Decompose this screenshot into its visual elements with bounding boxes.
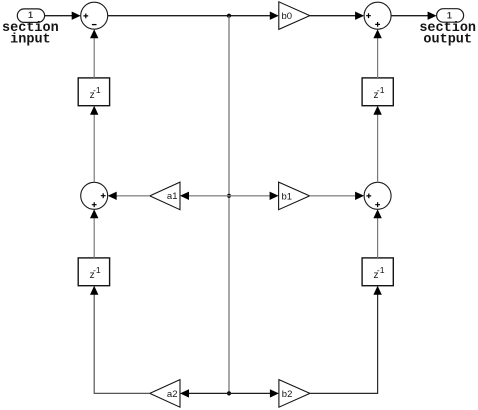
sum S4 (top-right) <box>364 2 391 29</box>
center vertical wire <box>228 16 230 394</box>
arrowhead into S4 <box>355 12 364 20</box>
arrowhead into S2 <box>108 192 117 200</box>
wire a1 to S2 <box>116 195 150 197</box>
arrowhead into S3 <box>355 192 364 200</box>
wire b2 to right column corner and up to lower-right delay <box>310 294 378 394</box>
delay label lower-left <box>90 265 101 281</box>
svg-text:input: input <box>10 32 51 47</box>
svg-text:a1: a1 <box>167 191 178 202</box>
wire a2 to left column corner and up to lower-left delay <box>94 294 150 394</box>
wire upper-right delay to S4 <box>377 38 379 78</box>
arrowhead into output oval <box>428 12 437 20</box>
svg-text:1: 1 <box>447 10 452 20</box>
arrowhead into S2 bottom <box>90 209 98 218</box>
S1 minus sign (bottom input) <box>92 24 97 26</box>
junction node dot (mid center) <box>227 194 231 198</box>
arrowhead into S1 bottom <box>90 29 98 38</box>
gain b1 triangle <box>279 182 310 210</box>
arrowhead into upper-right delay <box>373 106 381 115</box>
arrowhead into lower-left delay <box>90 286 98 295</box>
junction node dot (bottom center) <box>227 391 231 395</box>
svg-text:output: output <box>423 32 472 47</box>
svg-text:b0: b0 <box>282 11 293 22</box>
svg-text:b1: b1 <box>282 191 293 202</box>
wire center to a1 <box>189 195 230 197</box>
output port oval (1) <box>437 9 464 23</box>
S4 plus sign (left input) <box>366 13 371 18</box>
gain a1 triangle <box>150 182 180 210</box>
S3 plus sign (left input) <box>366 194 371 199</box>
wire S2 to upper-left delay <box>93 114 95 182</box>
delay block z^-1 lower-left <box>78 258 109 286</box>
svg-text:-1: -1 <box>93 265 101 275</box>
wire S3 to upper-right delay <box>377 114 379 182</box>
wire b0 to S4 <box>310 15 357 17</box>
S2 plus sign (bottom input) <box>92 202 97 207</box>
sum S2 (mid-left) <box>81 182 108 209</box>
delay block z^-1 upper-right <box>362 78 393 106</box>
gain b2 triangle <box>279 380 310 408</box>
input port oval (1) <box>17 9 44 23</box>
junction node dot (top center) <box>227 14 231 18</box>
wire lower-left delay to S2 <box>93 218 95 258</box>
arrowhead into S3 bottom <box>373 209 381 218</box>
arrowhead into S4 bottom <box>373 29 381 38</box>
wire upper-left delay to S1 <box>93 38 95 78</box>
wire center to b1 <box>229 195 271 197</box>
delay label upper-left <box>90 85 101 101</box>
gain b0 triangle <box>279 2 310 30</box>
S4 plus sign (bottom input) <box>375 22 380 27</box>
arrowhead into lower-right delay <box>373 286 381 295</box>
S2 plus sign (right input) <box>101 193 106 198</box>
wire S4 to output oval <box>391 15 429 17</box>
delay block z^-1 lower-right <box>362 258 393 286</box>
arrowhead into S1 <box>72 12 81 20</box>
arrowhead into b0 <box>270 12 279 20</box>
wire center to a2 <box>189 392 230 394</box>
svg-text:-1: -1 <box>377 265 385 275</box>
arrowhead into b1 <box>270 192 279 200</box>
svg-text:1: 1 <box>28 10 33 20</box>
svg-text:a2: a2 <box>167 389 178 400</box>
gain a2 triangle <box>150 380 180 408</box>
delay label upper-right <box>374 85 385 101</box>
svg-text:-1: -1 <box>377 85 385 95</box>
arrowhead into a1 <box>180 192 189 200</box>
wire b1 to S3 <box>310 195 357 197</box>
S3 plus sign (bottom input) <box>375 202 380 207</box>
arrowhead into upper-left delay <box>90 106 98 115</box>
S1 plus sign (left input) <box>83 14 88 19</box>
wire center to b2 <box>229 392 272 394</box>
wire input oval to sum S1 <box>45 15 73 17</box>
arrowhead into a2 <box>180 389 189 397</box>
svg-text:-1: -1 <box>93 85 101 95</box>
svg-text:b2: b2 <box>282 389 293 400</box>
wire lower-right delay to S3 <box>377 218 379 258</box>
delay block z^-1 upper-left <box>78 78 109 106</box>
sum S3 (mid-right) <box>364 182 391 209</box>
sum S1 (top-left) <box>81 2 108 29</box>
wire S1 to b0 <box>108 15 272 17</box>
arrowhead into b2 <box>270 389 279 397</box>
delay label lower-right <box>374 265 385 281</box>
